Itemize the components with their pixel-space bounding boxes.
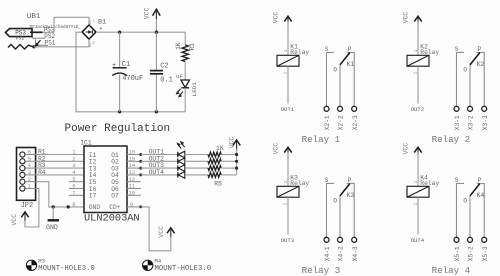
wire coil K1 to net OUT1: [287, 66, 289, 103]
svg-text:OUT1: OUT1: [281, 106, 295, 113]
svg-text:MOUNT-HOLE3.0: MOUNT-HOLE3.0: [155, 265, 212, 273]
wire VCC to coil K1: [287, 22, 289, 56]
svg-text:MOUNT-HOLE3.0: MOUNT-HOLE3.0: [38, 265, 95, 273]
wire net VCC from IC1 pin 9: [139, 205, 171, 250]
junction VCC bus row 1: [235, 153, 238, 156]
svg-text:X3-1: X3-1: [454, 115, 461, 130]
svg-text:X4-3: X4-3: [352, 246, 359, 261]
mount hole M4: [143, 257, 212, 273]
IC1 pin name O3: [111, 165, 119, 172]
svg-text:GND: GND: [46, 224, 58, 231]
svg-text:Relay: Relay: [290, 180, 309, 187]
svg-text:K1: K1: [347, 61, 355, 68]
junction VCC rail / C2: [155, 31, 158, 34]
svg-text:VCC: VCC: [403, 143, 410, 155]
junction IC1 output row 2: [139, 160, 142, 163]
svg-text:1K: 1K: [175, 42, 182, 50]
svg-text:+: +: [112, 62, 116, 69]
IC1 pin 7 stub: [69, 189, 84, 196]
terminal X2-3: [352, 106, 359, 130]
junction GND net / gnd symbol: [52, 205, 55, 208]
terminal X5-1: [454, 237, 461, 261]
VCC symbol at relay K3: [273, 143, 292, 157]
svg-text:Relay 4: Relay 4: [432, 265, 471, 276]
svg-text:S: S: [325, 46, 329, 53]
wire net R3 JP2 to IC1: [36, 162, 84, 169]
IC1 pin name I4: [89, 172, 97, 179]
svg-text:X3-3: X3-3: [482, 115, 489, 130]
wire net PS3 jack to bridge AC1: [43, 17, 90, 32]
net label OUT4: [411, 237, 425, 244]
net label OUT2: [411, 106, 424, 113]
JP2 pin 5 circle: [20, 155, 36, 164]
relay coil K1: [277, 43, 309, 74]
svg-text:1K: 1K: [216, 145, 224, 152]
relay K1 contact S terminal: [325, 46, 334, 106]
svg-text:PS3: PS3: [15, 29, 26, 36]
relay K2 contact P terminal: [477, 46, 485, 106]
svg-text:JP2: JP2: [21, 202, 34, 210]
dc jack connector UB1: [6, 13, 79, 42]
wire net R1 JP2 to IC1: [36, 149, 84, 156]
junction GND net / IC1 pin 8: [67, 205, 70, 208]
svg-text:P: P: [478, 46, 482, 53]
svg-text:9: 9: [130, 201, 133, 208]
svg-text:OUT2: OUT2: [411, 106, 424, 113]
terminal X5-2: [468, 237, 475, 261]
IC1 pin name O7: [111, 193, 119, 200]
junction bottom rail / C1: [118, 110, 121, 113]
terminal X4-1: [324, 237, 331, 261]
svg-text:X5-2: X5-2: [468, 246, 475, 261]
IC U1 ULN2003AN IC1: [80, 140, 139, 225]
wire VCC to coil K3: [287, 153, 289, 187]
IC1 pin name I7: [89, 193, 97, 200]
svg-text:P: P: [478, 177, 482, 184]
junction VCC bus row 2: [235, 160, 238, 163]
relay coil K3: [277, 174, 309, 205]
relay coil K4: [407, 174, 439, 205]
relay K4 contact S terminal: [455, 177, 464, 237]
capacitor C2: [150, 32, 173, 112]
svg-text:O: O: [463, 67, 467, 74]
svg-text:R5: R5: [214, 181, 222, 188]
VCC symbol at JP2: [11, 212, 29, 226]
LED1: [176, 73, 198, 112]
relay K2 switch blade: [470, 53, 484, 69]
svg-text:PS1: PS1: [45, 40, 56, 47]
IC1 pin name O2: [111, 159, 119, 166]
terminal X4-3: [352, 237, 359, 261]
relay K3 switch blade: [340, 184, 354, 200]
relay K1 contact P terminal: [347, 46, 355, 106]
IC1 pin number 3: [72, 162, 75, 169]
junction VCC bus row 3: [235, 167, 238, 170]
wire net R4 JP2 to IC1: [36, 169, 84, 176]
svg-text:X4-2: X4-2: [338, 246, 345, 261]
mount hole M3: [26, 257, 95, 273]
IC1 pin name O1: [111, 152, 119, 159]
svg-text:GND: GND: [89, 204, 100, 211]
IC1 pin name O6: [111, 186, 119, 193]
svg-text:X4-1: X4-1: [324, 246, 331, 261]
wire VCC bus of LED array: [236, 145, 238, 175]
svg-text:X2-2: X2-2: [338, 115, 345, 130]
svg-text:IC1: IC1: [80, 140, 92, 147]
wire GND-side from B1- down to bottom rail: [76, 32, 185, 112]
relay K1 switch blade: [340, 53, 354, 69]
svg-text:M4: M4: [155, 257, 162, 264]
VCC symbol at relay K1: [273, 12, 292, 26]
svg-text:VCC: VCC: [403, 12, 410, 24]
net label PS2: [44, 33, 55, 40]
svg-text:1: 1: [92, 20, 95, 24]
junction bottom rail / C2: [155, 110, 158, 113]
wire coil K2 to net OUT2: [417, 66, 419, 103]
svg-text:CD+: CD+: [109, 204, 120, 211]
junction VCC rail / C1: [118, 31, 121, 34]
svg-text:P: P: [348, 46, 352, 53]
IC1 pin name I2: [89, 159, 97, 166]
svg-text:Relay: Relay: [290, 49, 309, 56]
IC1 pin 14 stub: [127, 162, 141, 169]
LED array diode row 2: [177, 158, 208, 165]
net label PS1: [45, 40, 56, 47]
terminal X3-1: [454, 106, 461, 130]
IC1 pin 10 stub: [127, 189, 141, 196]
JP2 pin 2 circle: [20, 176, 36, 184]
terminal X4-2: [338, 237, 345, 261]
IC1 pin 6 stub: [69, 183, 84, 190]
terminal X2-1: [324, 106, 331, 130]
capacitor C1 (polarized): [112, 32, 143, 112]
terminal X2-2: [338, 106, 345, 130]
svg-text:Power Regulation: Power Regulation: [65, 123, 171, 135]
JP2 pin 6 circle: [20, 149, 36, 157]
svg-text:-: -: [77, 25, 80, 32]
relay K2 contact O terminal: [463, 65, 470, 107]
wire net PS1 switch to bridge AC2: [34, 39, 89, 47]
IC1 pin 15 stub: [127, 155, 141, 162]
IC1 pin name I6: [89, 186, 97, 193]
svg-text:OUT3: OUT3: [281, 237, 294, 244]
IC1 pin name I5: [89, 179, 97, 186]
wire JP2 pin1 to VCC: [25, 189, 39, 228]
jack switch contact spring PS1: [8, 40, 48, 50]
title Relay 1: [302, 134, 341, 145]
svg-text:R4: R4: [38, 169, 46, 176]
svg-text:S: S: [325, 177, 329, 184]
IC1 pin number 4: [72, 169, 76, 176]
LED array light arrows: [176, 141, 184, 149]
terminal X5-3: [482, 237, 489, 261]
wire VCC to coil K4: [417, 153, 419, 187]
svg-text:Relay 2: Relay 2: [432, 134, 471, 145]
svg-text:VCC: VCC: [143, 7, 150, 19]
svg-text:2: 2: [92, 42, 95, 46]
svg-text:OUT4: OUT4: [149, 169, 165, 176]
wire R5 row 1 to VCC bus: [221, 154, 236, 156]
wire net OUT2 to LED array: [141, 155, 178, 162]
ground symbol GND: [46, 207, 59, 231]
svg-text:OUT4: OUT4: [411, 237, 425, 244]
bridge rectifier B1: [77, 19, 106, 48]
wire R5 row 4 to VCC bus: [221, 174, 236, 176]
svg-text:VCC: VCC: [273, 143, 280, 155]
svg-text:M3: M3: [38, 257, 45, 264]
power VCC symbol: [143, 7, 160, 32]
wire net OUT3 to LED array: [141, 162, 178, 169]
IC1 pin name GND: [89, 204, 100, 211]
svg-text:X3-2: X3-2: [468, 115, 475, 130]
svg-text:S: S: [455, 46, 459, 53]
jack pin PS3 (center pin): [30, 31, 43, 33]
IC1 pin name O4: [111, 172, 119, 179]
IC1 pin name I3: [89, 165, 97, 172]
wire coil K4 to net OUT4: [417, 197, 419, 234]
LED array diode row 3: [177, 165, 208, 172]
VCC symbol at relay K2: [403, 12, 422, 26]
relay K3 contact O terminal: [333, 196, 340, 238]
wire R5 row 2 to VCC bus: [221, 160, 236, 162]
svg-text:LED1: LED1: [191, 82, 198, 96]
resistor network R5: [208, 145, 224, 187]
VCC symbol at LED array: [229, 137, 241, 149]
svg-text:0.1: 0.1: [160, 77, 173, 85]
junction IC1 output row 4: [139, 173, 142, 176]
junction IC1 output row 3: [139, 167, 142, 170]
connector JP2: [17, 148, 36, 201]
svg-text:uF: uF: [176, 73, 183, 80]
IC1 pin 8 number: [72, 201, 75, 208]
junction on switch node PS1: [32, 45, 35, 48]
title Relay 4: [432, 265, 471, 276]
svg-text:470uF: 470uF: [122, 75, 143, 83]
svg-text:C2: C2: [160, 63, 168, 71]
relay K3 contact P terminal: [347, 177, 355, 237]
svg-text:Relay: Relay: [420, 180, 439, 187]
IC1 pin 11 stub: [127, 183, 141, 190]
wire JP2 pin2 to GND net: [36, 182, 84, 207]
svg-text:+: +: [99, 25, 102, 32]
svg-text:8: 8: [72, 201, 75, 208]
svg-text:Relay 1: Relay 1: [302, 134, 341, 145]
svg-text:X2-1: X2-1: [324, 115, 331, 130]
wire net OUT4 to LED array: [141, 169, 178, 176]
svg-text:VCC: VCC: [273, 12, 280, 24]
svg-text:K4: K4: [477, 192, 485, 199]
label JP2: [21, 202, 34, 210]
relay K4 contact O terminal: [463, 196, 470, 238]
VCC symbol at relay K4: [403, 143, 422, 157]
relay K2 contact S terminal: [455, 46, 464, 106]
wire net R2 JP2 to IC1: [36, 155, 84, 162]
wire net OUT1 to LED array: [141, 149, 178, 156]
jack pin PS2 stub: [32, 37, 45, 39]
svg-text:X2-3: X2-3: [352, 115, 359, 130]
terminal X3-2: [468, 106, 475, 130]
net label PS3: [44, 27, 55, 34]
title Relay 3: [302, 265, 341, 276]
wire coil K3 to net OUT3: [287, 197, 289, 234]
svg-text:VCC: VCC: [229, 137, 236, 149]
junction IC1 output row 1: [139, 153, 142, 156]
svg-text:VCC: VCC: [158, 226, 165, 238]
LED array diode row 4: [177, 172, 208, 179]
relay K4 switch blade: [470, 184, 484, 200]
svg-text:10: 10: [129, 189, 136, 196]
relay K1 contact O terminal: [333, 65, 340, 107]
wire R5 row 3 to VCC bus: [221, 167, 236, 169]
svg-text:O: O: [463, 198, 467, 205]
LED array diode row 1: [177, 151, 208, 158]
JP2 pin 3 circle: [20, 169, 36, 177]
IC1 pin number 1: [72, 149, 76, 156]
svg-text:P: P: [348, 177, 352, 184]
IC1 pin name CD+: [109, 204, 120, 211]
JP2 pin 4 circle: [20, 162, 36, 171]
relay coil K2: [407, 43, 439, 74]
svg-text:PS2: PS2: [16, 36, 25, 42]
svg-text:K3: K3: [347, 192, 355, 199]
svg-text:Relay: Relay: [420, 49, 439, 56]
net label OUT3: [281, 237, 294, 244]
svg-text:S: S: [455, 177, 459, 184]
title Relay 2: [432, 134, 471, 145]
svg-text:X5-3: X5-3: [482, 246, 489, 261]
IC1 pin 12 stub: [127, 176, 141, 183]
svg-text:C1: C1: [122, 61, 130, 69]
svg-text:O7: O7: [111, 193, 119, 200]
svg-text:O: O: [333, 67, 337, 74]
svg-text:Relay 3: Relay 3: [302, 265, 341, 276]
wire VCC rail from B1+ to R1: [96, 31, 185, 33]
terminal X3-3: [482, 106, 489, 130]
svg-text:ULN2003AN: ULN2003AN: [84, 212, 140, 224]
svg-text:7: 7: [72, 189, 75, 196]
IC1 pin number 2: [72, 155, 75, 162]
net label OUT1: [281, 106, 295, 113]
VCC symbol at IC1 CD+: [158, 226, 174, 238]
IC1 pin name I1: [89, 152, 97, 159]
relay K4 contact P terminal: [477, 177, 485, 237]
wire VCC to coil K2: [417, 22, 419, 56]
IC1 pin 13 stub: [127, 169, 141, 176]
svg-text:O: O: [333, 198, 337, 205]
svg-text:X5-1: X5-1: [454, 246, 461, 261]
IC1 pin name O5: [111, 179, 119, 186]
svg-text:R1: R1: [189, 43, 196, 51]
JP2 pin 1 circle: [20, 183, 36, 191]
title Power Regulation: [65, 123, 171, 135]
IC1 pin 9 stub (CD+): [127, 201, 141, 208]
svg-text:VCC: VCC: [11, 214, 18, 226]
IC1 pin 5 stub: [69, 176, 84, 183]
svg-text:I7: I7: [89, 193, 97, 200]
IC1 pin 16 stub: [127, 149, 141, 156]
resistor R1: [175, 32, 196, 80]
svg-text:K2: K2: [477, 61, 485, 68]
svg-text:UB1: UB1: [27, 13, 41, 21]
relay K3 contact S terminal: [325, 177, 334, 237]
